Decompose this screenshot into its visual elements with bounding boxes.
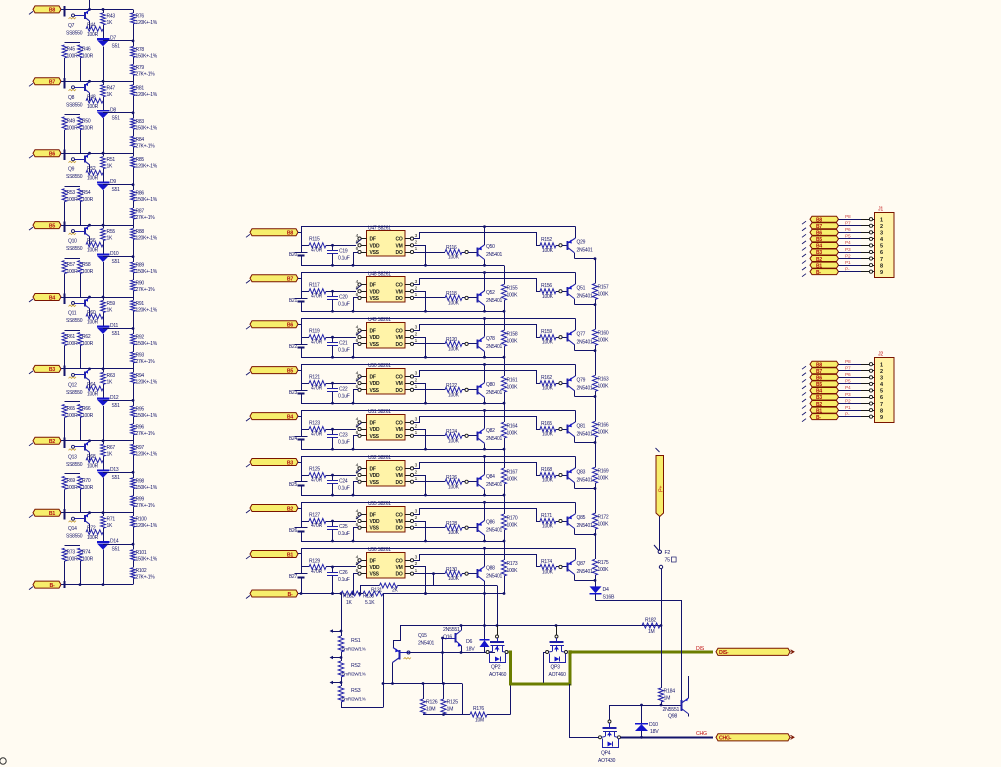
svg-text:100K: 100K (542, 340, 554, 346)
svg-text:R66: R66 (82, 406, 91, 412)
svg-text:U48 S8261: U48 S8261 (368, 271, 391, 277)
resistor R99 27K 1% (131, 496, 156, 513)
capacitor C23 0.1uF (327, 429, 350, 449)
svg-text:R50: R50 (82, 118, 91, 124)
svg-text:B2: B2 (287, 506, 293, 512)
svg-text:R172: R172 (598, 514, 609, 520)
svg-text:120K+-1%: 120K+-1% (136, 451, 158, 457)
wire CO to R159 (414, 325, 541, 338)
svg-text:QP4: QP4 (601, 751, 611, 757)
svg-text:R43: R43 (107, 13, 116, 19)
svg-text:R118: R118 (446, 291, 457, 297)
svg-text:Q7: Q7 (68, 23, 75, 29)
transistor Q80 2N5401 (465, 364, 502, 403)
svg-text:D10: D10 (649, 722, 658, 728)
svg-text:F2: F2 (665, 550, 671, 556)
svg-text:2N5551: 2N5551 (443, 627, 460, 633)
label R172 (598, 514, 610, 527)
diode D9 zener (97, 174, 120, 225)
wire VSS to bottom rail (354, 390, 359, 404)
svg-text:1M: 1M (664, 696, 671, 702)
svg-text:150K+-1%: 150K+-1% (136, 197, 158, 203)
svg-text:VSS: VSS (370, 296, 380, 302)
resistor R102 27K 1% (131, 568, 156, 585)
resistor R168 100K (540, 467, 559, 484)
svg-text:S51: S51 (112, 115, 121, 121)
svg-text:U52 S8261: U52 S8261 (368, 455, 391, 461)
svg-text:VDD: VDD (370, 565, 380, 571)
svg-text:100K: 100K (507, 522, 519, 528)
svg-text:100R: 100R (67, 197, 79, 203)
capacitor C24 0.1uF (327, 475, 350, 495)
svg-text:R59: R59 (107, 301, 116, 307)
resistor R76 120K 1% (131, 9, 158, 41)
resistor R167 100K (501, 449, 518, 496)
svg-text:S51: S51 (112, 187, 121, 193)
svg-text:B6: B6 (49, 152, 55, 158)
svg-text:U47 S8261: U47 S8261 (368, 225, 391, 231)
svg-text:100R: 100R (67, 125, 79, 131)
svg-text:2N5401: 2N5401 (577, 339, 593, 345)
svg-text:100K: 100K (507, 338, 519, 344)
resistor RS1 5mR/2W/1% (338, 636, 365, 661)
svg-text:R163: R163 (598, 376, 609, 382)
svg-text:R123: R123 (309, 421, 320, 427)
resistor R49 100R (62, 115, 80, 154)
wire B- row (298, 592, 504, 595)
wire DO to R128 (414, 527, 445, 529)
node B2 port to J1 pin 7 (802, 256, 839, 264)
svg-text:R88: R88 (136, 229, 145, 235)
svg-text:470R: 470R (311, 431, 323, 437)
svg-text:2N5401: 2N5401 (577, 248, 593, 254)
wire DO to R122 (414, 389, 445, 391)
svg-text:R72: R72 (87, 526, 96, 532)
svg-text:100R: 100R (87, 535, 99, 541)
resistor R175 100K (592, 534, 597, 580)
svg-text:VDD: VDD (370, 473, 380, 479)
svg-text:B25: B25 (289, 482, 298, 488)
wire VM to bottom rail (414, 430, 426, 450)
svg-text:R122: R122 (446, 383, 457, 389)
svg-text:C26: C26 (339, 570, 348, 576)
resistor R126 10M (420, 684, 437, 715)
resistor R120 100K (445, 337, 465, 352)
transistor Q14 SS8550 (66, 513, 90, 540)
resistor R158 100K (501, 311, 518, 358)
svg-text:R126: R126 (446, 475, 457, 481)
svg-text:R131: R131 (371, 588, 382, 594)
svg-text:CHG-: CHG- (719, 736, 732, 742)
wire P7 net (839, 366, 875, 373)
svg-text:CO: CO (396, 374, 403, 380)
svg-text:VSS: VSS (370, 388, 380, 394)
resistor RS2 5mR/2W/1% (338, 661, 365, 686)
resistor R50 100R (78, 117, 94, 153)
battery B24 (289, 436, 308, 442)
svg-text:470R: 470R (311, 339, 323, 345)
svg-text:Q13: Q13 (68, 454, 77, 460)
resistor R46 100R (78, 45, 94, 81)
svg-text:2N5401: 2N5401 (577, 477, 593, 483)
svg-text:2N5401: 2N5401 (577, 431, 593, 437)
op-amp U52 S8261 (protection IC) (356, 455, 418, 486)
svg-text:J1: J1 (878, 207, 883, 213)
svg-text:2N5401: 2N5401 (577, 523, 593, 529)
transistor Q81 2N5401 (559, 410, 596, 444)
green power path from QP2 (509, 650, 572, 684)
transistor Q51 2N5401 (559, 273, 596, 307)
svg-text:27K+-1%: 27K+-1% (136, 503, 156, 509)
svg-text:R90: R90 (136, 281, 145, 287)
wire D4 row to Q98 branch (596, 601, 682, 701)
resistor R71 1K (101, 513, 116, 534)
svg-text:1: 1 (880, 217, 883, 223)
node B8 port to J2 pin 1 (802, 361, 839, 369)
svg-text:R125: R125 (447, 700, 459, 706)
resistor R174 100K (540, 559, 559, 576)
svg-text:B3: B3 (287, 460, 293, 466)
resistor R123 470R (301, 421, 356, 438)
resistor R66 100R (78, 404, 94, 440)
svg-text:R57: R57 (67, 262, 76, 268)
resistor R63 1K (101, 369, 116, 390)
svg-text:B4: B4 (287, 414, 293, 420)
wire P3 net (839, 392, 875, 399)
svg-text:Q87: Q87 (577, 561, 586, 567)
wire CO to R174 (414, 555, 541, 567)
transistor Q83 2N5401 (559, 456, 596, 490)
wire B1 rail (61, 509, 133, 520)
svg-text:R156: R156 (541, 283, 552, 289)
svg-text:150K+-1%: 150K+-1% (136, 413, 158, 419)
svg-text:DF: DF (370, 558, 376, 564)
svg-text:27K+-1%: 27K+-1% (136, 431, 156, 437)
svg-text:R70: R70 (82, 478, 91, 484)
svg-text:100K: 100K (448, 576, 460, 582)
svg-text:2N5401: 2N5401 (486, 344, 502, 350)
wire B8 rail (61, 6, 133, 17)
svg-text:1K: 1K (107, 523, 114, 529)
resistor R182 1M (642, 618, 660, 635)
wire B4 rail (61, 294, 133, 305)
node B6 port (middle column) (246, 321, 298, 330)
svg-text:R56: R56 (87, 238, 96, 244)
svg-text:0.1uF: 0.1uF (338, 577, 350, 583)
gate drive rail (400, 624, 662, 627)
svg-text:100R: 100R (82, 485, 94, 491)
label R157 (598, 285, 610, 298)
svg-text:U51 S8261: U51 S8261 (368, 409, 391, 415)
svg-text:S51: S51 (112, 547, 121, 553)
svg-text:QP3: QP3 (551, 665, 561, 671)
wire CO to R156 (414, 279, 541, 292)
svg-text:R168: R168 (541, 467, 552, 473)
diode D7 zener (97, 30, 120, 81)
wire P4 net (839, 385, 875, 392)
svg-text:DIS-: DIS- (719, 650, 729, 656)
svg-text:100K: 100K (542, 294, 554, 300)
svg-text:CO: CO (396, 512, 403, 518)
svg-text:R74: R74 (82, 550, 91, 556)
svg-text:Q29: Q29 (577, 240, 586, 246)
svg-text:R92: R92 (136, 335, 145, 341)
svg-text:QP2: QP2 (491, 665, 501, 671)
wire VM to bottom rail (414, 246, 426, 266)
svg-text:27K+-1%: 27K+-1% (136, 143, 156, 149)
svg-text:8: 8 (880, 408, 883, 414)
svg-text:SS8550: SS8550 (66, 30, 83, 36)
svg-text:2N5401: 2N5401 (486, 252, 502, 258)
svg-text:VDD: VDD (370, 335, 380, 341)
svg-text:R130: R130 (446, 567, 457, 573)
svg-text:VSS: VSS (370, 526, 380, 532)
svg-text:B24: B24 (289, 436, 298, 442)
svg-text:B8: B8 (287, 231, 293, 237)
svg-text:RS1: RS1 (351, 638, 361, 644)
wire B- rail (left column) (61, 581, 133, 588)
resistor R65 100R (62, 402, 80, 441)
wire P5 net (839, 234, 875, 241)
transistor Q11 SS8550 (66, 298, 90, 325)
resistor R152 100K (540, 237, 559, 254)
resistor R127 470R (301, 512, 356, 529)
svg-text:100K: 100K (542, 478, 554, 484)
svg-text:R124: R124 (446, 429, 457, 435)
svg-text:R100: R100 (136, 517, 147, 523)
svg-text:S51: S51 (112, 475, 121, 481)
svg-text:150K+-1%: 150K+-1% (136, 557, 158, 563)
node B3 port (middle column) (246, 459, 298, 468)
svg-text:R67: R67 (107, 445, 116, 451)
wire VM to bottom rail (414, 338, 426, 358)
svg-text:VDD: VDD (370, 519, 380, 525)
svg-text:B27: B27 (289, 574, 298, 580)
svg-text:0.1uF: 0.1uF (338, 301, 350, 307)
wire DO to R126 (414, 481, 445, 483)
svg-text:DF: DF (370, 512, 376, 518)
svg-text:P+: P+ (659, 486, 665, 492)
svg-text:120K+-1%: 120K+-1% (136, 308, 158, 314)
svg-text:100K: 100K (448, 530, 460, 536)
resistor R61 100R (62, 331, 80, 369)
wire DF link (356, 285, 362, 289)
resistor R124 100K (445, 429, 465, 444)
svg-text:5: 5 (880, 389, 883, 395)
svg-text:DO: DO (396, 480, 403, 486)
svg-text:5mR/2W/1%: 5mR/2W/1% (342, 697, 366, 702)
svg-text:R169: R169 (598, 468, 609, 474)
wire diode to divider junction (103, 327, 134, 330)
node B3 port (left column) (29, 365, 61, 374)
resistor R122 100K (445, 383, 465, 398)
wire diode to divider junction (103, 40, 134, 43)
svg-text:SS8550: SS8550 (66, 102, 83, 108)
svg-text:AOT460: AOT460 (489, 672, 507, 678)
resistor R128 100K (445, 521, 465, 536)
transistor Q79 2N5401 (559, 364, 596, 397)
svg-text:27K+-1%: 27K+-1% (136, 71, 156, 77)
resistor R156 100K (540, 283, 559, 300)
svg-text:VM: VM (396, 381, 403, 387)
svg-text:R175: R175 (598, 560, 609, 566)
svg-text:VDD: VDD (370, 289, 380, 295)
svg-text:9: 9 (880, 270, 883, 276)
wire up to source loop (510, 684, 512, 715)
svg-text:100K: 100K (542, 386, 554, 392)
svg-text:5: 5 (880, 244, 883, 250)
svg-text:R96: R96 (136, 424, 145, 430)
op-amp U51 S8261 (protection IC) (356, 409, 418, 440)
svg-text:R121: R121 (309, 375, 320, 381)
svg-text:470R: 470R (311, 523, 323, 529)
wire P8 net (839, 359, 875, 366)
resistor R84 27K 1% (131, 136, 156, 153)
wire B2 rail (61, 437, 133, 448)
svg-text:VSS: VSS (370, 250, 380, 256)
svg-text:Q83: Q83 (577, 469, 586, 475)
resistor R73 100R (62, 546, 80, 585)
resistor R131 2K (360, 572, 498, 625)
resistor R51 1K (101, 153, 116, 174)
svg-text:S16B: S16B (603, 595, 615, 601)
wire VSS to bottom rail (354, 482, 359, 496)
resistor R159 100K (540, 329, 559, 346)
node B- port to J2 pin 9 (802, 414, 839, 422)
svg-text:470R: 470R (311, 293, 323, 299)
svg-text:Q77: Q77 (577, 331, 586, 337)
corner artifact (0, 758, 6, 764)
resistor R117 470R (301, 283, 356, 300)
svg-text:100R: 100R (87, 176, 99, 182)
svg-text:R63: R63 (107, 373, 116, 379)
svg-text:Q98: Q98 (668, 714, 677, 720)
svg-text:100R: 100R (67, 269, 79, 275)
svg-text:2N5401: 2N5401 (577, 385, 593, 391)
svg-text:R174: R174 (541, 559, 552, 565)
svg-text:B-: B- (816, 270, 821, 276)
svg-text:R68: R68 (87, 454, 96, 460)
svg-text:R76: R76 (136, 13, 145, 19)
resistor R161 100K (501, 357, 518, 404)
svg-text:B-: B- (288, 592, 293, 598)
svg-text:8: 8 (880, 263, 883, 269)
capacitor C21 0.1uF (327, 337, 350, 357)
svg-text:470R: 470R (311, 248, 323, 254)
svg-text:100R: 100R (82, 341, 94, 347)
resistor R83 150K 1% (131, 113, 158, 137)
resistor R93 27K 1% (131, 352, 156, 369)
svg-text:B8: B8 (49, 8, 55, 14)
svg-text:100K: 100K (598, 429, 610, 435)
svg-text:U55 S8261: U55 S8261 (368, 501, 391, 507)
svg-text:470R: 470R (311, 385, 323, 391)
resistor R172 100K (592, 488, 597, 534)
wire VSS to bottom rail (354, 298, 359, 312)
svg-text:27K+-1%: 27K+-1% (136, 575, 156, 581)
resistor R125 1M (441, 684, 458, 715)
svg-text:Q50: Q50 (486, 244, 495, 250)
svg-text:2N5401: 2N5401 (486, 528, 502, 534)
svg-text:CO: CO (396, 466, 403, 472)
resistor R160 100K (592, 305, 597, 351)
svg-text:R161: R161 (507, 377, 518, 383)
svg-text:C25: C25 (339, 524, 348, 530)
svg-text:100R: 100R (87, 32, 99, 38)
node B7 port to J2 pin 2 (802, 368, 839, 376)
svg-text:100R: 100R (82, 125, 94, 131)
svg-text:470R: 470R (311, 569, 323, 575)
wire VM to bottom rail (414, 292, 426, 312)
svg-text:C24: C24 (339, 478, 348, 484)
svg-text:R91: R91 (136, 301, 145, 307)
svg-text:150K+-1%: 150K+-1% (136, 341, 158, 347)
svg-text:R157: R157 (598, 285, 609, 291)
svg-text:150K+-1%: 150K+-1% (136, 53, 158, 59)
svg-text:R73: R73 (67, 550, 76, 556)
wire B7 rail (61, 78, 133, 89)
battery B23 (289, 390, 308, 396)
transistor Q84 2N5401 (465, 456, 502, 495)
svg-text:R52: R52 (87, 166, 96, 172)
svg-text:C20: C20 (339, 294, 348, 300)
svg-text:AOT460: AOT460 (549, 672, 567, 678)
battery B26 (289, 528, 308, 534)
resistor R54 100R (78, 189, 94, 225)
capacitor C26 0.1uF (327, 567, 350, 594)
svg-text:DF: DF (370, 466, 376, 472)
svg-text:R129: R129 (309, 558, 320, 564)
svg-text:R102: R102 (136, 568, 147, 574)
label R169 (598, 468, 610, 481)
svg-text:5.1K: 5.1K (365, 600, 375, 606)
svg-text:1M: 1M (447, 707, 454, 713)
wire DO to R116 (414, 252, 445, 254)
svg-text:Q16: Q16 (443, 635, 452, 641)
svg-text:B7: B7 (287, 277, 293, 283)
resistor R48 100R (86, 93, 103, 110)
node B6 port (left column) (29, 150, 61, 159)
wire DO to R130 (414, 573, 445, 575)
svg-text:R155: R155 (507, 286, 518, 292)
svg-text:100K: 100K (542, 524, 554, 530)
svg-text:VSS: VSS (370, 342, 380, 348)
transistor Q82 2N5401 (465, 410, 502, 449)
wire QP3 drain down (542, 653, 546, 686)
battery B27 (289, 574, 308, 580)
resistor R89 150K 1% (131, 257, 158, 281)
svg-text:B1: B1 (49, 511, 55, 517)
wire P- net (839, 266, 875, 273)
svg-text:R159: R159 (541, 329, 552, 335)
svg-text:VM: VM (396, 473, 403, 479)
resistor R95 150K 1% (131, 400, 158, 424)
wire P8 net (839, 214, 875, 221)
svg-text:100K: 100K (507, 430, 519, 436)
wire DO to R120 (414, 343, 445, 345)
svg-text:R165: R165 (541, 421, 552, 427)
wire block rails (298, 409, 576, 451)
svg-text:R166: R166 (598, 422, 609, 428)
svg-text:100K: 100K (448, 255, 460, 261)
label R160 (598, 330, 610, 343)
svg-text:DO: DO (396, 250, 403, 256)
battery B21 (289, 298, 308, 304)
svg-text:U49 S8261: U49 S8261 (368, 317, 391, 323)
svg-text:R47: R47 (107, 85, 116, 91)
resistor R116 100K (445, 245, 465, 260)
svg-text:R54: R54 (82, 190, 91, 196)
